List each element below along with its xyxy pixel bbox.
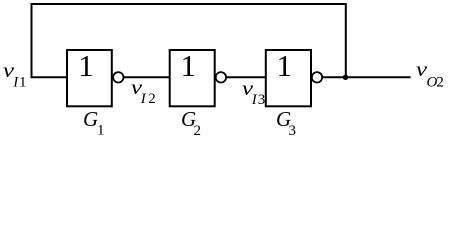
inverter gate G1 box [67,48,124,106]
wire G3 output to vO2 [317,76,411,78]
svg-text:I3: I3 [251,92,265,108]
svg-text:I1: I1 [12,75,26,91]
inverter gate G2 box [170,48,226,106]
junction dot node vO2 [343,75,348,80]
designator G2 [181,107,201,139]
designator G3 [276,107,296,139]
node label vI2 [131,75,156,107]
wire feedback left vertical [31,3,33,77]
svg-text:1: 1 [277,48,293,83]
node label vI3 [242,76,265,108]
svg-text:G: G [83,107,98,131]
wire G1 output to G2 input [118,76,170,78]
wire feedback right vertical [345,3,347,77]
node label vI1 [3,58,27,91]
wire feedback top [32,3,346,5]
gate G2 output bubble [216,72,226,82]
inverter gate G3 box [266,48,322,106]
svg-text:I2: I2 [140,91,156,107]
svg-text:2: 2 [194,123,202,139]
node label vO2 [416,57,444,91]
designator G1 [83,107,105,139]
gate G3 output bubble [312,72,322,82]
svg-text:O2: O2 [427,75,444,91]
svg-text:1: 1 [181,48,197,83]
wire G2 output to G3 input [221,76,266,78]
svg-text:1: 1 [78,48,94,83]
svg-text:3: 3 [289,123,297,139]
svg-text:1: 1 [97,123,105,139]
wire input to G1 [31,76,68,78]
gate G1 output bubble [113,72,123,82]
